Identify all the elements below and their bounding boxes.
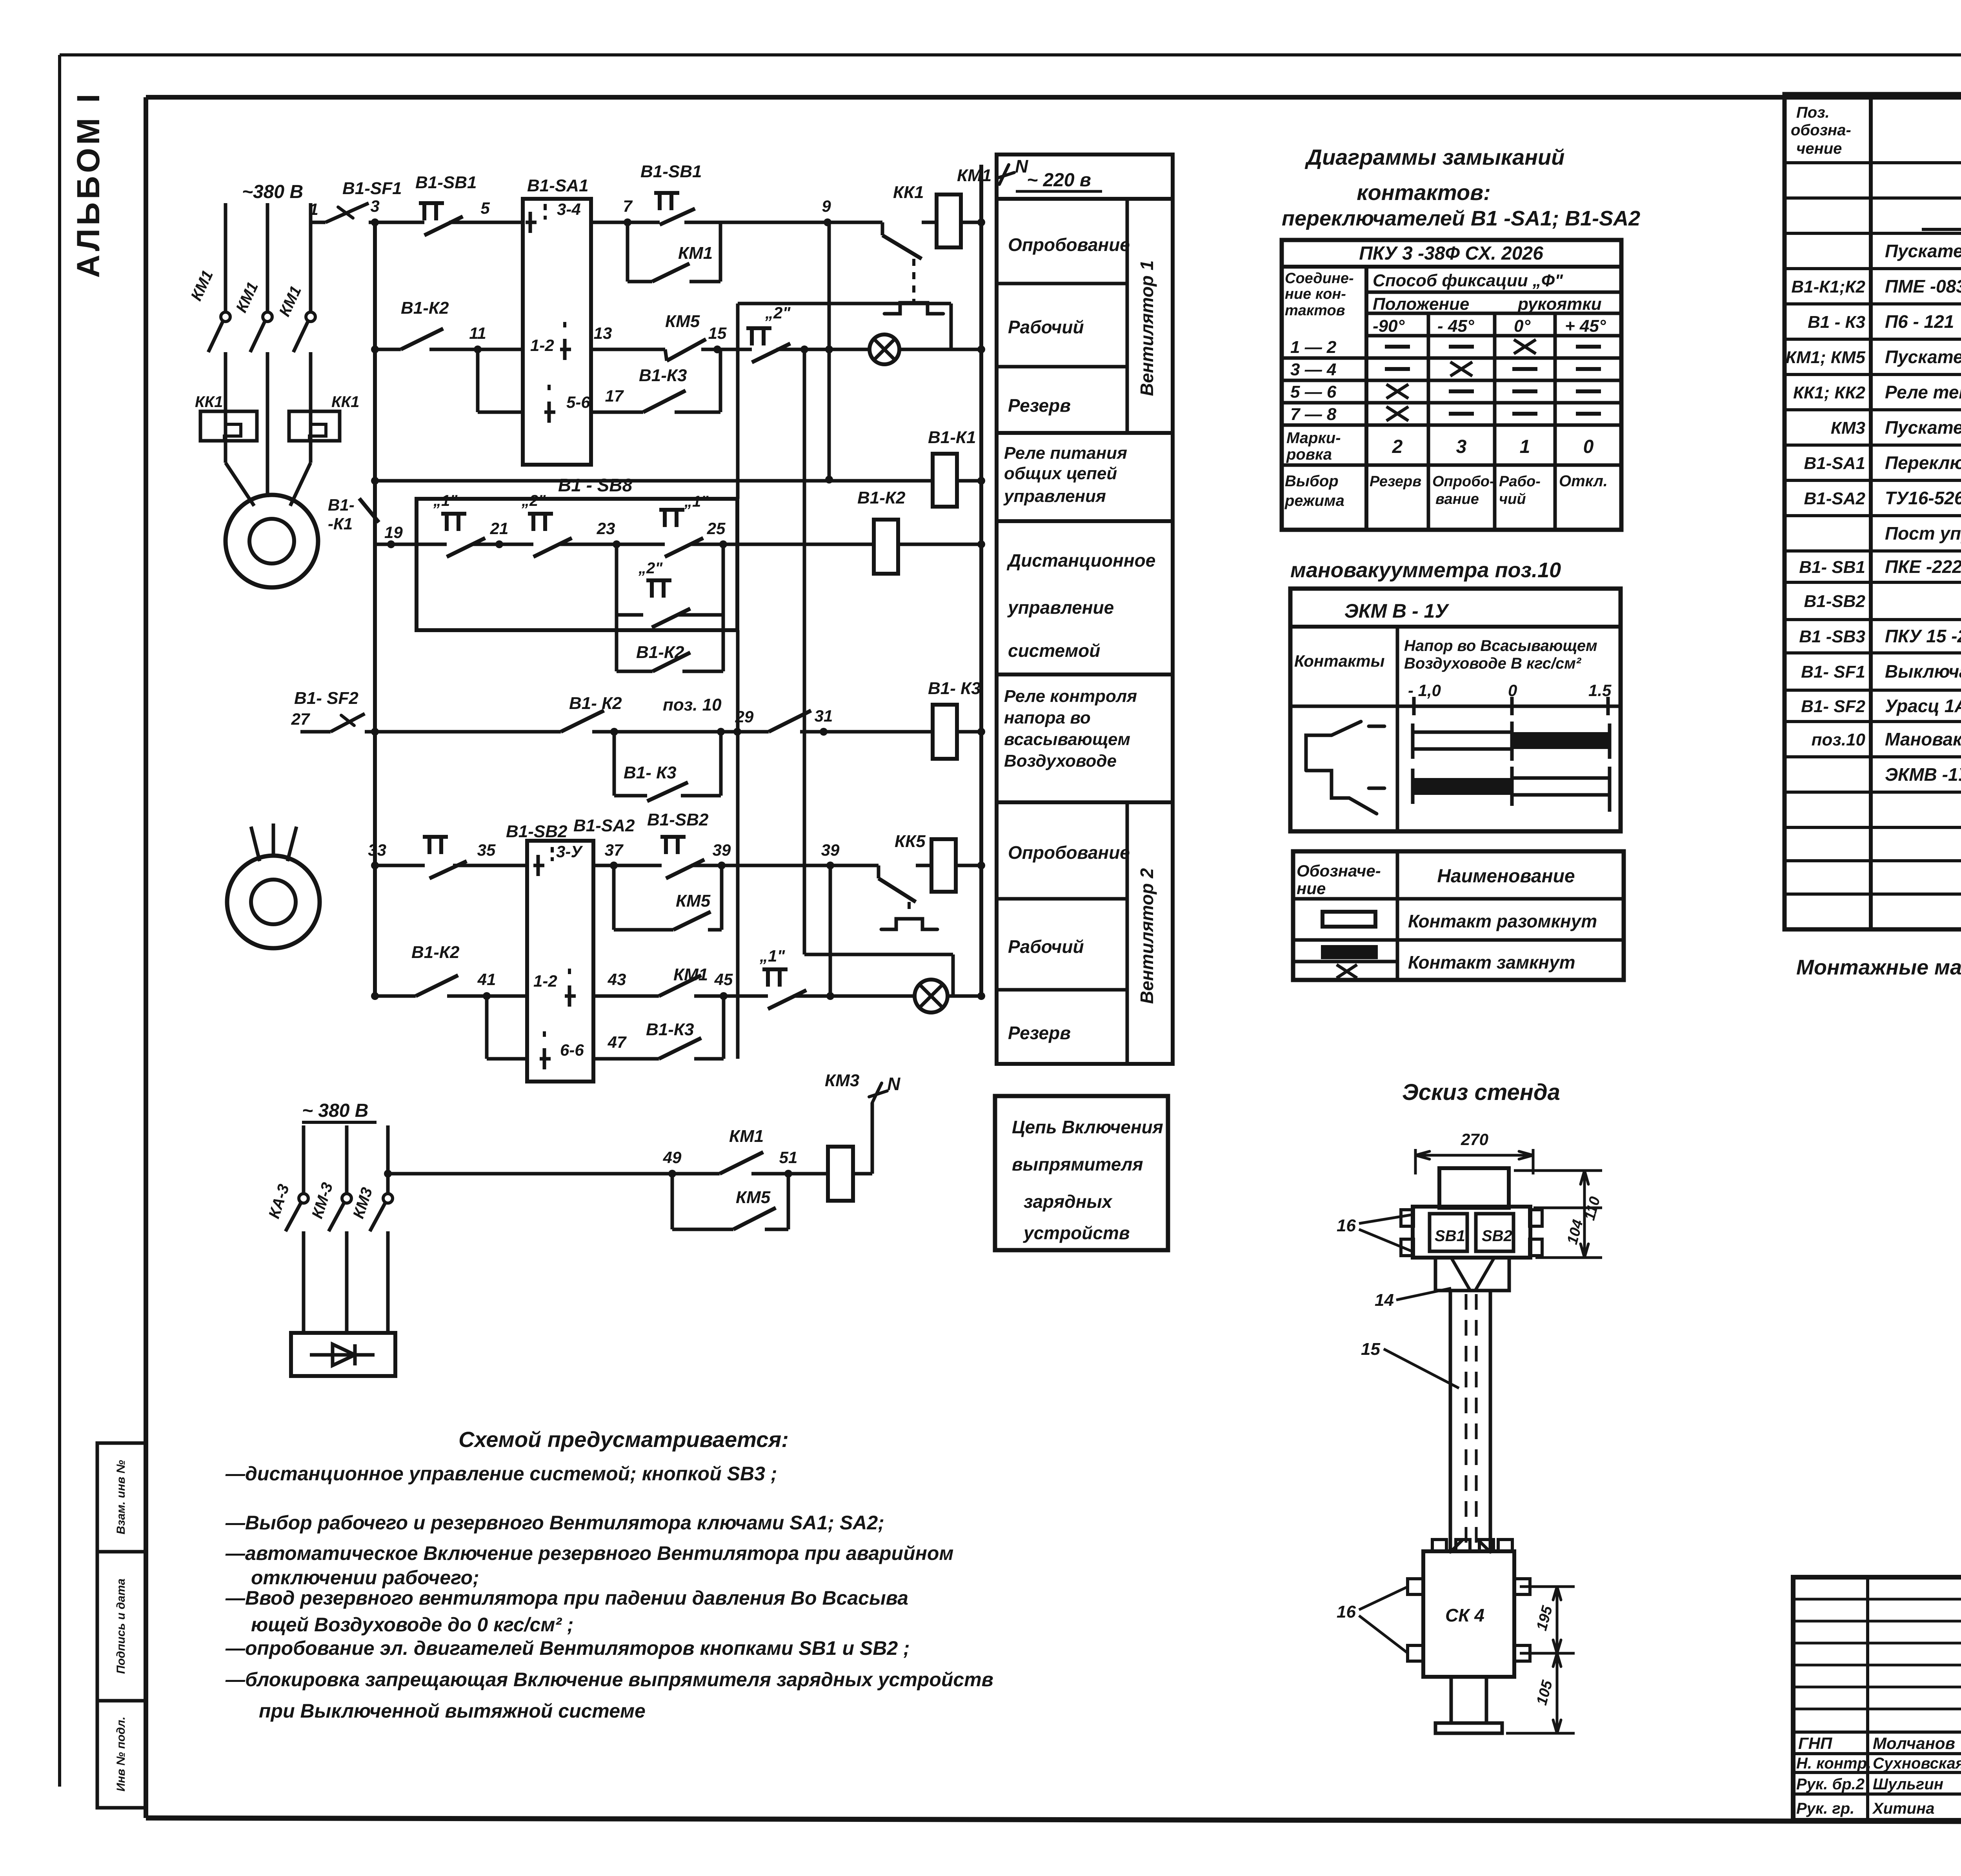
svg-text:3-У: 3-У: [556, 842, 583, 861]
svg-text:„1": „1": [759, 947, 785, 965]
svg-text:29: 29: [735, 707, 754, 726]
relay B1-K3 break contact rung7 bypass: [659, 1038, 701, 1059]
contactor KM1 contact pole 1: [221, 312, 230, 322]
svg-text:Схемой предусматривается:: Схемой предусматривается:: [458, 1427, 789, 1452]
wire rung5 a: [365, 730, 561, 734]
closed mark X: [1386, 407, 1408, 421]
svg-text:1-2: 1-2: [530, 336, 554, 354]
svg-text:Поз.: Поз.: [1796, 104, 1830, 121]
parts table row: [1785, 826, 1961, 829]
svg-text:„2": „2": [765, 304, 791, 322]
svg-text:Резерв: Резерв: [1008, 395, 1071, 416]
contact blade KM1 pole 1: [208, 321, 223, 352]
wire to motor M2 a: [251, 827, 260, 861]
wire rung7 bypass 5-6: [485, 996, 489, 1059]
svg-text:17: 17: [605, 387, 624, 405]
parts table row: [1785, 479, 1961, 482]
svg-text:рукоятки: рукоятки: [1517, 294, 1602, 314]
wire phase 3 lower: [309, 352, 313, 451]
svg-text:~ 220 в: ~ 220 в: [1027, 170, 1091, 191]
svg-text:Пускатель магнитный Uкат 220: Пускатель магнитный Uкат 220 В: [1885, 241, 1961, 261]
function table fan1: [997, 155, 1173, 433]
parts table row: [1785, 267, 1961, 270]
svg-text:19: 19: [384, 523, 403, 542]
svg-text:Цепь Включения: Цепь Включения: [1012, 1117, 1163, 1137]
svg-text:зарядных: зарядных: [1024, 1191, 1113, 1212]
svg-text:Переключатель ПКУ3 -38Ф схе: Переключатель ПКУ3 -38Ф схема 2026: [1885, 453, 1961, 473]
svg-text:2: 2: [1392, 436, 1403, 457]
wire to motor M1 b: [266, 441, 269, 497]
parts table row: [1785, 302, 1961, 305]
wire rung6 a: [375, 864, 425, 867]
wire node39 drop to lamp rung: [829, 865, 832, 996]
relay B1-K1 contact in rail: [359, 498, 379, 522]
wire rung2 c: [829, 348, 870, 351]
contactor KM5 auxiliary contact branch: [612, 865, 616, 930]
svg-text:Молчанов: Молчанов: [1873, 1734, 1955, 1752]
svg-text:13: 13: [594, 324, 612, 342]
wire fan link vertical: [736, 630, 740, 1059]
svg-text:устройств: устройств: [1023, 1223, 1130, 1243]
svg-text:16: 16: [1337, 1602, 1356, 1622]
parts table row: [1785, 514, 1961, 517]
stand shaft: [1449, 1291, 1452, 1552]
svg-text:270: 270: [1461, 1130, 1488, 1149]
svg-text:ПМЕ -083 ОСТ16.0.536.001-: ПМЕ -083 ОСТ16.0.536.001- 72: [1885, 276, 1961, 296]
svg-text:В1-: В1-: [328, 496, 355, 514]
thermal relay KK1 heater C: [289, 411, 340, 441]
contact blade KM1 pole 3: [293, 321, 308, 352]
parts table row: [1785, 859, 1961, 862]
svg-text:Обозначе-: Обозначе-: [1297, 862, 1381, 880]
svg-text:В1-SA1: В1-SA1: [1804, 454, 1866, 473]
wire loop above lamp2: [804, 953, 953, 956]
svg-text:вание: вание: [1435, 491, 1479, 507]
scale tick: [1606, 697, 1610, 715]
SK4 flanges: [1408, 1579, 1423, 1594]
relay coil B1-K3: [933, 705, 957, 759]
svg-text:Реле контроля: Реле контроля: [1004, 687, 1137, 706]
wire rung7 to N: [948, 994, 981, 998]
open mark dash: [1576, 367, 1601, 371]
svg-text:SВ2: SВ2: [1482, 1227, 1512, 1245]
svg-text:11: 11: [469, 324, 486, 342]
function cell: power relay: [997, 433, 1173, 521]
parts table row: [1785, 618, 1961, 621]
function cell: remote control: [997, 521, 1173, 674]
relay B1-K3 break contact bypass: [614, 411, 643, 414]
pushbutton station B1-SB8 box: [417, 499, 737, 630]
svg-text:Контакты: Контакты: [1294, 652, 1385, 670]
svg-text:-К1: -К1: [328, 514, 353, 533]
svg-text:—блокировка запрещающая Включ: —блокировка запрещающая Включение выпрям…: [225, 1669, 993, 1691]
PKU column divider: [1554, 313, 1557, 530]
svg-text:„2": „2": [638, 560, 663, 577]
svg-text:В1-SA2: В1-SA2: [1804, 489, 1866, 508]
svg-text:КК1: КК1: [893, 183, 924, 202]
svg-text:КМ5: КМ5: [676, 891, 711, 911]
wire rung6 to N: [956, 864, 981, 867]
svg-text:0: 0: [1583, 436, 1594, 457]
section underline: [1922, 228, 1961, 231]
wire KM3 to N stub: [871, 1103, 874, 1174]
relay B1-K2 break contact rung7: [416, 975, 458, 996]
svg-text:41: 41: [477, 970, 496, 989]
svg-text:В1-SB2: В1-SB2: [506, 822, 568, 841]
svg-text:Пост управления кнопочный: Пост управления кнопочный: [1885, 523, 1961, 544]
wire to motor M1 c: [309, 441, 313, 463]
parts table row: [1785, 651, 1961, 654]
svg-text:27: 27: [291, 710, 310, 728]
bar closed segment: [1512, 732, 1610, 749]
motor M2 fan 2: [227, 856, 320, 948]
function cell: pressure relay: [997, 674, 1173, 802]
svg-text:9: 9: [822, 197, 831, 215]
switch SA2 contact 3-4: [537, 855, 540, 876]
svg-text:Сухновская: Сухновская: [1873, 1755, 1961, 1772]
svg-text:Эскиз стенда: Эскиз стенда: [1402, 1080, 1560, 1105]
wire rung8 b: [788, 1172, 828, 1176]
drawing frame top: [146, 95, 1961, 100]
switch SA2 contact 1-2: [568, 985, 571, 1007]
parts table row: [1785, 755, 1961, 758]
wire rung5 to N: [957, 730, 981, 734]
svg-text:В1- SF1: В1- SF1: [1801, 662, 1865, 682]
parts table row: [1785, 196, 1961, 200]
svg-text:3: 3: [370, 197, 379, 215]
wire N rail: [979, 165, 983, 996]
svg-text:КМ1: КМ1: [678, 244, 713, 263]
switch B1-SA2 body: [527, 841, 593, 1082]
svg-text:В1- К3: В1- К3: [928, 679, 981, 698]
thermal relay KK5 break contact: [828, 864, 879, 867]
wire to motor M2 c: [287, 827, 297, 861]
svg-text:напора во: напора во: [1004, 708, 1091, 727]
svg-text:ГНП: ГНП: [1798, 1734, 1832, 1752]
wire phase 1 lower: [224, 352, 227, 451]
svg-text:Воздуховоде: Воздуховоде: [1004, 751, 1117, 771]
svg-text:КК1; КК2: КК1; КК2: [1793, 383, 1866, 402]
svg-text:Выключатель АК63- 1М У3 ; И: Выключатель АК63- 1М У3 ; И 500В: [1885, 661, 1961, 682]
relay B1-K2 break contact on rung2: [375, 348, 401, 351]
open mark dash: [1385, 345, 1410, 349]
svg-text:Опробование: Опробование: [1008, 842, 1130, 863]
open mark dash: [1576, 345, 1601, 349]
svg-text:3-4: 3-4: [557, 200, 581, 218]
svg-text:21: 21: [490, 519, 509, 538]
sub-branch pushbutton 2prime: [615, 544, 618, 671]
svg-text:тактов: тактов: [1285, 302, 1345, 319]
closed mark X: [1386, 384, 1408, 398]
scale tick: [1510, 697, 1514, 715]
svg-text:В1-SВ2: В1-SВ2: [647, 810, 709, 829]
svg-text:—Выбор рабочего и резервно: —Выбор рабочего и резервного Вентилятора…: [225, 1512, 884, 1534]
wire phase 2 upper: [266, 203, 269, 312]
wire rung1 a: [369, 221, 420, 224]
svg-text:Рук. бр.2: Рук. бр.2: [1796, 1776, 1865, 1793]
open mark dash: [1576, 389, 1601, 393]
function box: rectifier enable circuit: [995, 1096, 1168, 1250]
title block: [1793, 1577, 1961, 1820]
switch SA1 contact 1-2: [563, 339, 567, 360]
svg-text:Воздуховоде В кгс/см²: Воздуховоде В кгс/см²: [1404, 655, 1582, 672]
svg-text:Диаграммы замыканий: Диаграммы замыканий: [1305, 145, 1565, 169]
svg-text:47: 47: [608, 1033, 627, 1051]
open mark dash: [1385, 367, 1410, 371]
wire rung7 b: [593, 994, 659, 998]
contactor KM5 make contact bypass rung8: [671, 1174, 674, 1229]
plate flanges: [1401, 1210, 1413, 1226]
svg-text:45: 45: [714, 970, 733, 989]
bar open segment 2: [1512, 778, 1610, 795]
pushbutton B1-SB1 (second pole): [654, 191, 679, 195]
thermal relay KK1 heater A: [200, 411, 257, 441]
svg-text:В1 - SВ8: В1 - SВ8: [558, 475, 633, 495]
contactor KM1 contact pole 2: [263, 312, 272, 322]
svg-text:Контакт замкнут: Контакт замкнут: [1408, 952, 1575, 973]
title block thin row: [1793, 1598, 1961, 1601]
svg-text:поз.10: поз.10: [1812, 730, 1866, 749]
dim 195/105: [1520, 1585, 1575, 1588]
wire rung4 to N: [898, 543, 981, 546]
switch SA2 contact 5-6: [543, 1048, 546, 1069]
svg-text:ТУ16-526. 047 -7У: ТУ16-526. 047 -7У: [1885, 488, 1961, 508]
contactor coil KM1: [937, 195, 961, 247]
wire left control rail: [373, 222, 377, 996]
svg-text:Урасц 1А; отс.3 ТУ16 -522.: Урасц 1А; отс.3 ТУ16 -522.140 -78: [1885, 696, 1961, 716]
outer border top: [60, 53, 1961, 56]
contactor KM1 auxiliary contact branch: [626, 222, 629, 282]
parts table row: [1785, 549, 1961, 553]
wire rung4 a: [375, 543, 417, 546]
pushbutton SB8 1prime: [659, 508, 684, 512]
svg-text:„1": „1": [684, 493, 709, 510]
node N top: [996, 165, 1014, 184]
open mark dash: [1576, 412, 1601, 416]
PKU marking row line: [1282, 464, 1621, 467]
svg-text:„2": „2": [521, 492, 546, 509]
svg-text:~380 В: ~380 В: [242, 182, 303, 202]
svg-text:15: 15: [1361, 1340, 1380, 1359]
outer border left: [58, 55, 61, 1787]
stand top box: [1439, 1168, 1509, 1208]
svg-text:чение: чение: [1796, 140, 1842, 157]
contactor KM1 make contact rung7: [659, 975, 701, 996]
svg-text:управление: управление: [1007, 597, 1114, 618]
svg-text:Вентилятор 2: Вентилятор 2: [1137, 868, 1157, 1004]
parts table row: [1785, 373, 1961, 376]
svg-text:25: 25: [707, 519, 726, 538]
svg-text:- 1,0: - 1,0: [1408, 681, 1441, 700]
contactor coil KM5: [931, 839, 956, 892]
wire node9 drop: [828, 222, 831, 480]
svg-text:Марки-: Марки-: [1286, 429, 1341, 447]
title block thin row: [1793, 1620, 1961, 1623]
wire to motor M1 a: [224, 441, 227, 463]
margin stamp cells: [97, 1443, 146, 1808]
open mark dash: [1512, 412, 1537, 416]
svg-text:1: 1: [1520, 436, 1530, 457]
svg-text:N: N: [887, 1074, 900, 1094]
wire rung6 b: [593, 864, 662, 867]
svg-text:„1": „1": [433, 492, 458, 509]
svg-text:Выбор: Выбор: [1285, 473, 1339, 490]
svg-text:SВ1: SВ1: [1435, 1227, 1465, 1245]
svg-text:1-2: 1-2: [533, 972, 557, 990]
svg-text:КМ5: КМ5: [665, 312, 700, 331]
wire rung7 start: [375, 994, 416, 998]
svg-text:В1-SВ2: В1-SВ2: [1804, 592, 1866, 611]
svg-text:В1-SB1: В1-SB1: [640, 162, 702, 181]
svg-text:Взам. инв №: Взам. инв №: [115, 1460, 127, 1534]
wire rung7 a: [487, 994, 527, 998]
contactor KM1 make contact rung8: [672, 1172, 720, 1176]
wire rung1 c: [591, 221, 628, 224]
svg-text:В1-SA1: В1-SA1: [527, 176, 589, 195]
svg-text:35: 35: [477, 841, 496, 859]
legend closed contact symbol: [1321, 945, 1378, 959]
open mark dash: [1512, 389, 1537, 393]
svg-text:В1-SA2: В1-SA2: [573, 816, 635, 835]
parts table row: [1785, 161, 1961, 164]
funnel: [1435, 1258, 1509, 1291]
svg-text:33: 33: [368, 841, 386, 859]
svg-text:16: 16: [1337, 1216, 1356, 1235]
svg-text:АЛЬБОМ I: АЛЬБОМ I: [71, 91, 106, 278]
svg-text:Способ фиксации „Ф": Способ фиксации „Ф": [1373, 271, 1563, 290]
circuit breaker B1-SF2: [331, 714, 365, 732]
svg-text:N: N: [1015, 156, 1028, 176]
svg-text:КМ1: КМ1: [729, 1127, 764, 1146]
circuit breaker B1-SF2 stub: [300, 730, 331, 734]
legend X symbol: [1337, 965, 1357, 978]
PKU row line: [1282, 401, 1621, 405]
svg-text:В1-К2: В1-К2: [857, 488, 906, 507]
svg-text:0: 0: [1508, 681, 1517, 700]
svg-text:23: 23: [597, 519, 615, 538]
svg-text:~ 380 В: ~ 380 В: [302, 1100, 368, 1121]
svg-text:Резерв: Резерв: [1370, 473, 1421, 490]
dim 270: [1414, 1149, 1417, 1174]
svg-text:Н. контр.: Н. контр.: [1796, 1755, 1871, 1772]
relay B1-K3 make contact bypass rung5: [613, 732, 616, 796]
svg-text:Рук. гр.: Рук. гр.: [1796, 1800, 1854, 1817]
parts table row: [1785, 689, 1961, 692]
svg-text:+ 45°: + 45°: [1565, 316, 1606, 336]
title block thin row: [1793, 1664, 1961, 1667]
parts table row: [1785, 581, 1961, 584]
svg-text:Подпись и дата: Подпись и дата: [115, 1578, 127, 1674]
svg-text:мановакуумметра поз.10: мановакуумметра поз.10: [1290, 558, 1561, 582]
PKU column divider: [1493, 313, 1497, 530]
svg-text:отключении рабочего;: отключении рабочего;: [251, 1567, 479, 1589]
indicator lamp HL2: [915, 980, 948, 1013]
open mark dash: [1512, 367, 1537, 371]
pedestal: [1451, 1677, 1486, 1723]
wire phase 1 upper: [224, 203, 227, 312]
svg-text:—автоматическое Включение р: —автоматическое Включение резервного Вен…: [225, 1542, 953, 1564]
parts table row: [1785, 791, 1961, 794]
switch КМ3 pole: [383, 1194, 393, 1203]
svg-text:5 — 6: 5 — 6: [1290, 382, 1337, 402]
pushbutton B1-SB2 (second pole): [660, 835, 686, 839]
svg-text:—Ввод резервного вентилято: —Ввод резервного вентилятора при падении…: [225, 1587, 908, 1609]
pushbutton 1 rung7: [762, 967, 788, 971]
indicator lamp HL1: [870, 334, 899, 364]
relay B1-K2 make contact sub-branch: [617, 670, 653, 673]
svg-text:Опробование: Опробование: [1008, 234, 1130, 255]
changeover contact symbol: [1306, 722, 1384, 814]
svg-text:В1-К2: В1-К2: [401, 298, 449, 318]
wire rung1 to N: [961, 221, 981, 224]
svg-text:Хитина: Хитина: [1872, 1800, 1935, 1817]
parts table row: [1785, 893, 1961, 896]
wire rung1 b: [486, 221, 523, 224]
stand button plate: [1413, 1207, 1530, 1258]
parts table row: [1785, 232, 1961, 235]
svg-text:при Выключенной вытяжной: при Выключенной вытяжной системе: [259, 1700, 646, 1722]
bar closed segment 2: [1413, 778, 1512, 795]
pressure switch contact pos.10: [737, 730, 769, 734]
svg-text:Положение: Положение: [1373, 294, 1469, 314]
svg-text:Пускатель магнитный: Пускатель магнитный: [1885, 417, 1961, 438]
svg-text:Рабо-: Рабо-: [1499, 473, 1541, 490]
svg-text:В1-К3: В1-К3: [646, 1020, 694, 1039]
PKU angles row bottom: [1366, 334, 1621, 338]
contactor KM5 break contact rung2: [651, 348, 665, 351]
wire rung3: [375, 479, 933, 483]
svg-text:31: 31: [815, 707, 833, 725]
svg-text:Откл.: Откл.: [1559, 473, 1608, 490]
parts list table: [1785, 94, 1961, 929]
diode symbol: [310, 1353, 375, 1357]
dim 104/110 right: [1514, 1169, 1602, 1172]
contactor KM1 contact pole 3: [306, 312, 315, 322]
parts table column: [1869, 94, 1873, 929]
svg-text:-90°: -90°: [1373, 316, 1405, 336]
svg-text:В1-К1: В1-К1: [928, 428, 976, 447]
wire rung2 to N: [899, 348, 981, 351]
switch SA1 contact 5-6: [548, 402, 551, 423]
wire rung8 a: [388, 1172, 672, 1176]
contactor coil KM3: [828, 1147, 853, 1201]
svg-text:Дистанционное: Дистанционное: [1006, 550, 1155, 571]
svg-text:В1 -SВ3: В1 -SВ3: [1799, 627, 1865, 646]
switch SA1 contact 3-4: [529, 212, 532, 233]
wire rung2 a: [478, 348, 523, 351]
svg-text:—опробование эл. двигателей: —опробование эл. двигателей Вентиляторов…: [225, 1637, 910, 1659]
svg-text:ЭКМВ -1У х 1,5.Предел измерен: ЭКМВ -1У х 1,5.Предел измерения-1...0...…: [1885, 764, 1961, 785]
svg-text:КК1: КК1: [331, 393, 359, 411]
closed mark X: [1514, 340, 1536, 354]
svg-text:43: 43: [608, 970, 626, 989]
svg-text:5-6: 5-6: [566, 393, 590, 411]
function table fan2: [997, 802, 1173, 1064]
svg-text:В1-К2: В1-К2: [411, 943, 460, 962]
svg-text:Рабочий: Рабочий: [1008, 317, 1084, 337]
svg-text:Реле питания: Реле питания: [1004, 444, 1127, 463]
svg-text:Вентилятор 1: Вентилятор 1: [1137, 260, 1157, 396]
wire KM3 group phase 3: [386, 1125, 390, 1194]
svg-text:контактов:: контактов:: [1357, 180, 1490, 205]
svg-text:Опробо-: Опробо-: [1432, 473, 1495, 490]
svg-text:Резерв: Резерв: [1008, 1023, 1071, 1043]
svg-text:Пускатель магнитный: Пускатель магнитный: [1885, 347, 1961, 367]
svg-text:ЭКМ В - 1У: ЭКМ В - 1У: [1344, 600, 1450, 622]
svg-text:В1- К3: В1- К3: [624, 763, 677, 782]
switch B1-SA1 body: [523, 199, 591, 465]
svg-text:П6 - 121: П6 - 121: [1885, 311, 1954, 332]
